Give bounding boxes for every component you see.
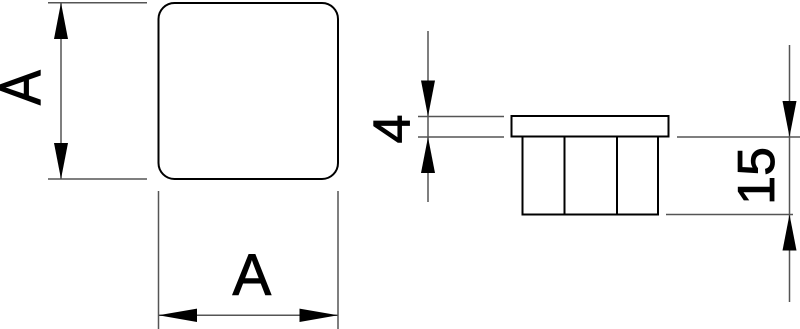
arrowhead right (bottom A dimension) — [300, 309, 339, 322]
svg-text:15: 15 — [728, 147, 786, 205]
extension line bottom (left A dimension) — [48, 178, 147, 180]
svg-text:4: 4 — [364, 115, 422, 144]
arrowhead left (bottom A dimension) — [159, 309, 198, 322]
dimension line 4 vertical — [427, 31, 429, 202]
left view: rounded square cap outline — [159, 3, 339, 179]
extension line right (bottom A dimension) — [337, 191, 339, 329]
extension line left (bottom A dimension) — [158, 191, 160, 329]
arrowhead down (4 dimension) — [421, 81, 435, 117]
right view: inner rib line 2 — [616, 137, 618, 215]
svg-text:A: A — [232, 243, 271, 308]
arrowhead up (4 dimension) — [421, 137, 435, 173]
extension line upper (15 dimension) — [677, 136, 800, 138]
extension line upper (4 dimension) — [418, 116, 504, 118]
arrowhead up (15 dimension) — [783, 215, 797, 251]
arrowhead down (left A dimension) — [54, 143, 68, 179]
extension line lower (15 dimension) — [666, 214, 793, 216]
dimension line A horizontal — [159, 314, 339, 316]
dimension line A vertical — [60, 3, 62, 179]
right view: body (plug) — [523, 137, 659, 215]
svg-text:A: A — [0, 70, 53, 105]
extension line lower (4 dimension) — [418, 136, 504, 138]
arrowhead down (15 dimension) — [783, 101, 797, 137]
extension line top (left A dimension) — [48, 2, 147, 4]
right view: flange (top plate) — [512, 116, 669, 137]
right view: inner rib line 1 — [564, 137, 566, 215]
arrowhead up (left A dimension) — [54, 3, 68, 39]
dimension line 15 vertical — [789, 45, 791, 302]
